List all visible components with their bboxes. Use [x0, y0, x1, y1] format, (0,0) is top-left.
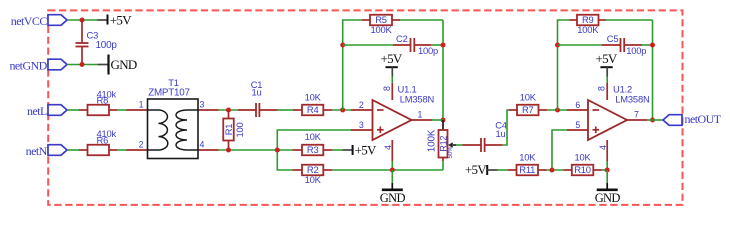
svg-text:+5V: +5V	[110, 12, 132, 27]
svg-text:+5V: +5V	[465, 162, 487, 177]
svg-text:100K: 100K	[370, 24, 392, 35]
svg-text:5: 5	[575, 120, 580, 130]
wire netL to R8	[67, 109, 79, 111]
svg-text:1: 1	[418, 109, 423, 119]
wire R10 to GND2	[602, 169, 608, 171]
capacitor C4	[463, 120, 507, 153]
svg-text:+5V: +5V	[595, 51, 617, 66]
svg-text:netL: netL	[27, 104, 47, 118]
svg-text:3: 3	[200, 100, 205, 110]
svg-text:R1: R1	[223, 124, 234, 136]
svg-text:R6: R6	[97, 134, 109, 145]
svg-text:netGND: netGND	[9, 59, 47, 73]
wire feedback2 left vertical	[558, 20, 570, 110]
junction node C5 right	[650, 43, 655, 48]
svg-text:7: 7	[634, 109, 639, 119]
resistor R4	[293, 91, 332, 115]
svg-text:1u: 1u	[495, 128, 505, 139]
sheet border dashed	[48, 10, 682, 205]
wire C2 row left	[343, 44, 393, 46]
wire U1.2 pin5 loop	[552, 130, 567, 170]
junction node R1 top	[226, 108, 231, 113]
svg-text:2: 2	[139, 140, 144, 150]
svg-text:100K: 100K	[426, 129, 437, 152]
resistor R10	[564, 151, 602, 175]
wire R12 wiper to C4	[456, 144, 463, 146]
junction node GND1	[390, 168, 395, 173]
svg-text:netOUT: netOUT	[685, 112, 722, 126]
net flag netVCC	[11, 14, 67, 28]
wire out2 stub	[647, 119, 653, 121]
wire C5 to feedback2 right	[642, 44, 653, 46]
svg-text:50%: 50%	[448, 146, 454, 159]
svg-text:3: 3	[359, 120, 364, 130]
junction node VCC-C3	[80, 18, 85, 23]
wire R4 to opamp pin2	[332, 109, 351, 111]
capacitor C5	[602, 33, 646, 56]
svg-text:LM358N: LM358N	[400, 93, 434, 104]
ground GND2	[595, 170, 621, 205]
wire R5 to feedback right	[400, 19, 443, 21]
capacitor C1	[238, 79, 278, 117]
svg-text:10K: 10K	[305, 131, 322, 142]
svg-text:R3: R3	[307, 144, 319, 155]
power flag GND left	[98, 55, 137, 75]
wire R9 to feedback2 right	[606, 19, 653, 21]
op-amp U1.1 LM358N	[351, 83, 434, 161]
capacitor C3	[76, 20, 118, 65]
svg-text:R10: R10	[574, 164, 591, 175]
wire feedback right vertical	[442, 20, 444, 120]
svg-text:GND: GND	[380, 191, 406, 205]
capacitor C2	[393, 33, 438, 56]
resistor R1	[223, 110, 245, 150]
svg-text:GND: GND	[595, 191, 621, 205]
svg-text:R12: R12	[439, 136, 449, 152]
svg-text:10K: 10K	[574, 151, 591, 162]
wire netGND row	[67, 64, 98, 66]
svg-text:10K: 10K	[520, 91, 537, 102]
svg-text:R11: R11	[519, 164, 535, 175]
wire C5 row left	[558, 44, 603, 46]
svg-text:4: 4	[383, 145, 393, 150]
junction node out1	[441, 118, 446, 123]
svg-text:R8: R8	[97, 95, 109, 106]
power flag +5V bottom	[465, 162, 498, 177]
svg-text:R4: R4	[307, 104, 319, 115]
wire R7 to opamp pin6	[547, 109, 567, 111]
svg-text:10K: 10K	[305, 174, 322, 185]
wire node A vertical	[277, 130, 351, 170]
svg-text:netN: netN	[26, 144, 48, 158]
resistor R8	[79, 88, 117, 115]
ground GND1	[380, 170, 406, 205]
svg-text:ZMPT107: ZMPT107	[148, 87, 190, 98]
svg-text:C3: C3	[87, 30, 99, 41]
wire T1 pin4 to node	[219, 149, 293, 151]
svg-text:6: 6	[575, 100, 580, 110]
svg-text:8: 8	[597, 86, 607, 91]
svg-text:LM358N: LM358N	[615, 93, 649, 104]
junction node A	[275, 148, 280, 153]
svg-text:100p: 100p	[96, 40, 118, 51]
potentiometer R12	[426, 120, 456, 170]
wire U1.1 pin4 to GND row	[391, 161, 393, 170]
svg-text:100: 100	[234, 122, 245, 137]
wire feedback2 right vertical	[652, 20, 654, 120]
net flag netL	[27, 104, 67, 118]
svg-text:C2: C2	[396, 33, 408, 44]
junction node feedback2 left bottom	[555, 108, 560, 113]
svg-text:+5V: +5V	[355, 142, 377, 157]
wire R11 to node B	[547, 169, 564, 171]
svg-text:10K: 10K	[305, 91, 322, 102]
power flag +5V mid	[343, 142, 378, 157]
junction node B	[550, 168, 555, 173]
svg-text:GND: GND	[111, 57, 137, 72]
power flag +5V above U1.1	[380, 51, 402, 83]
net flag netN	[26, 144, 67, 158]
resistor R7	[509, 91, 548, 115]
svg-text:1u: 1u	[251, 86, 261, 97]
svg-text:R7: R7	[522, 104, 534, 115]
resistor R11	[508, 151, 547, 175]
junction node GND-C3	[80, 62, 85, 67]
svg-text:C5: C5	[607, 33, 619, 44]
transformer T1 ZMPT107	[127, 77, 219, 159]
junction node C2 left	[340, 43, 345, 48]
resistor R6	[79, 128, 117, 155]
wire netN to R6	[67, 149, 79, 151]
power flag +5V above U1.2	[595, 51, 617, 83]
svg-text:8: 8	[382, 86, 392, 91]
svg-text:100p: 100p	[626, 45, 646, 56]
wire R2 to GND row	[332, 169, 443, 171]
junction node feedback left bottom	[340, 108, 345, 113]
wire +5V to R11	[498, 169, 509, 171]
wire out1 stub	[432, 119, 443, 121]
svg-text:4: 4	[200, 140, 205, 150]
op-amp U1.2 LM358N	[567, 83, 650, 161]
svg-text:100K: 100K	[577, 24, 599, 35]
net flag netOUT	[663, 112, 722, 126]
svg-text:1: 1	[139, 100, 144, 110]
svg-text:2: 2	[359, 100, 364, 110]
svg-text:netVCC: netVCC	[11, 14, 48, 28]
wire R3 to +5V	[332, 149, 342, 151]
wire out2 to netOUT	[653, 119, 664, 121]
junction node C2 right	[441, 43, 446, 48]
resistor R3	[293, 131, 333, 155]
junction node GND2	[605, 168, 610, 173]
wire R8 to T1 pin1	[117, 109, 126, 111]
resistor R5	[362, 14, 400, 35]
svg-text:100p: 100p	[418, 45, 438, 56]
wire C4 to R7	[503, 110, 509, 145]
svg-text:4: 4	[598, 145, 608, 150]
wire C1 to R4	[278, 109, 293, 111]
wire C2 to feedback right	[431, 44, 443, 46]
power flag +5V top-left	[98, 12, 133, 27]
svg-text:10K: 10K	[519, 151, 536, 162]
junction node R1 bottom	[226, 148, 231, 153]
wire U1.2 pin4 to GND row	[606, 161, 608, 170]
wire feedback left vertical	[343, 20, 362, 110]
junction node out2	[650, 118, 655, 123]
net flag netGND	[9, 59, 67, 73]
wire R6 to T1 pin2	[117, 149, 126, 151]
wire netVCC row	[67, 19, 98, 21]
svg-text:+5V: +5V	[380, 51, 402, 66]
resistor R9	[570, 14, 607, 35]
junction node C5 left	[555, 43, 560, 48]
wire T1 pin3 to node	[219, 109, 239, 111]
resistor R2	[293, 164, 333, 185]
